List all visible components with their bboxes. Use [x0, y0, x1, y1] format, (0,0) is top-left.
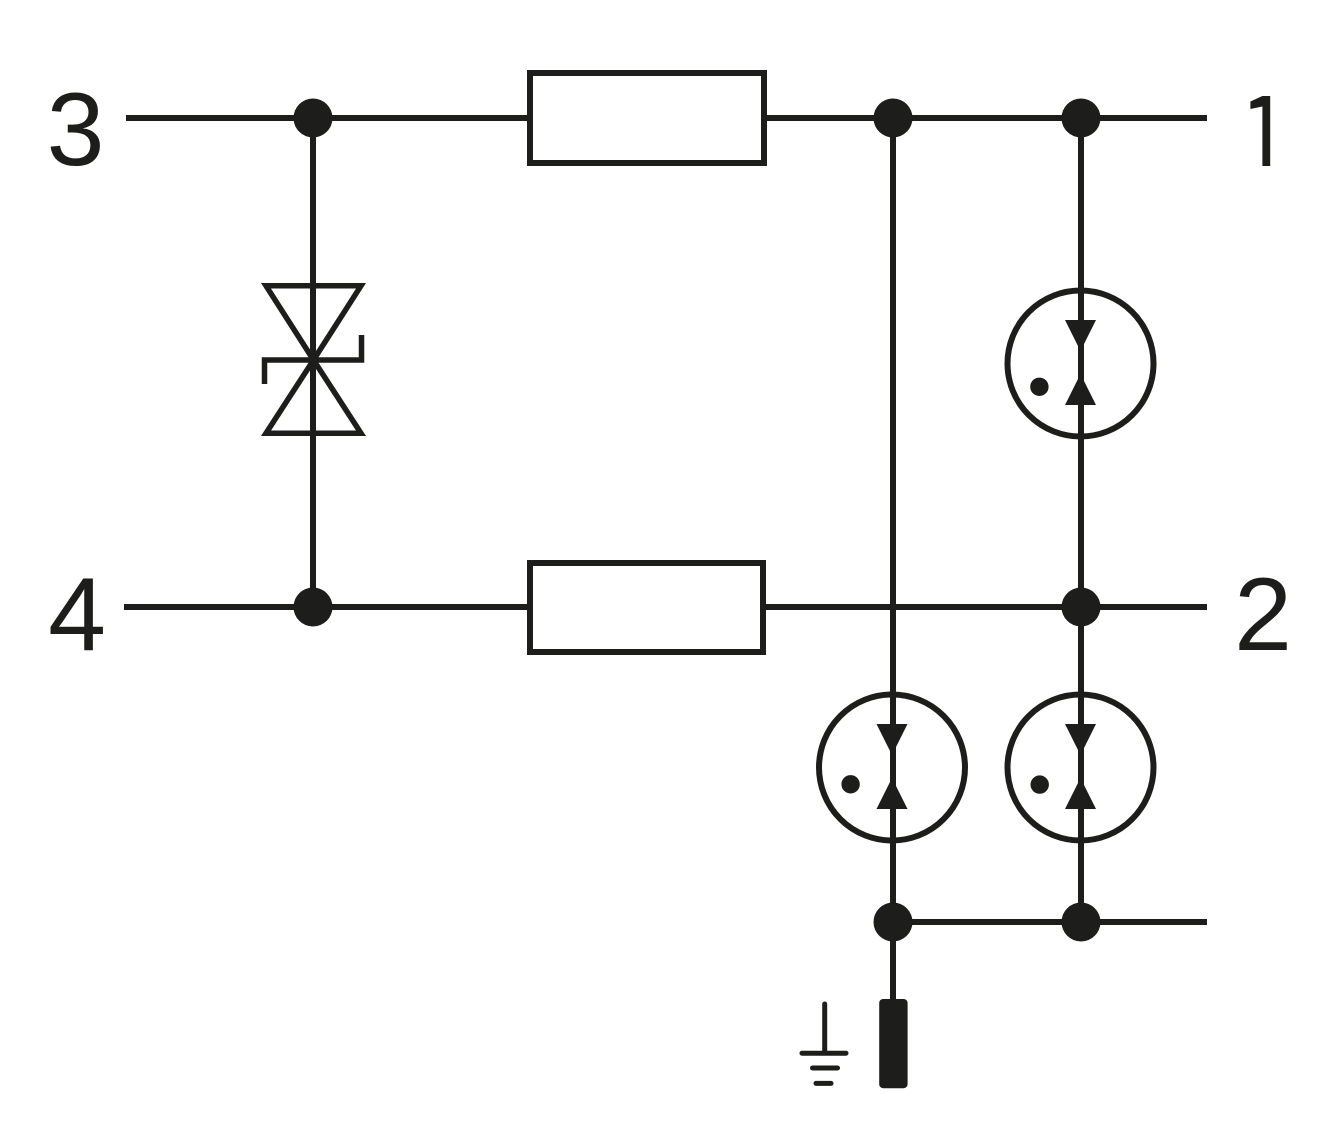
terminal label 1: [1250, 96, 1270, 166]
GDT F2 gas-filled indicator dot: [841, 775, 859, 793]
circle of GDT F1 (top right gas discharge tube): [1008, 291, 1154, 437]
wire: ground bus: [893, 919, 1207, 925]
wire: bottom line from terminal 4 to terminal 2: [124, 604, 1207, 610]
node: junction bottom wire / TVS branch: [294, 588, 333, 627]
wire: stem from ground bus to ground contact: [890, 922, 896, 1000]
resistor R2 (bottom decoupling impedance box): [530, 563, 763, 652]
wire: vertical branch x=1081 through GDT F1 and F3: [1078, 118, 1084, 922]
wire: top line from terminal 3 to terminal 1: [126, 115, 1207, 121]
circle of GDT F2 (bottom left gas discharge tube): [819, 695, 965, 841]
node: junction top wire / TVS branch: [294, 99, 333, 138]
TVS suppressor diode D1 (bidirectional, between lines 3 and 4): [265, 286, 362, 433]
wire: vertical branch x=893 through GDT F2 to ground bus: [890, 118, 896, 922]
resistor R1 (top decoupling impedance box): [530, 73, 764, 163]
wire: vertical branch through TVS diode at x=313: [310, 118, 316, 607]
node: junction top wire / branch x=1081: [1062, 99, 1101, 138]
svg-text:3: 3: [47, 72, 105, 188]
ground contact electrode (black bar): [879, 999, 907, 1088]
GDT F2 internal electrodes (filled triangles): [877, 724, 908, 809]
svg-text:2: 2: [1234, 557, 1292, 673]
svg-text:4: 4: [48, 557, 106, 673]
node: junction bottom wire / branch x=1081: [1062, 588, 1101, 627]
node: junction top wire / branch x=893: [874, 99, 913, 138]
node: junction ground bus / branch x=1081: [1062, 903, 1101, 942]
GDT F1 gas-filled indicator dot: [1030, 378, 1048, 396]
ground (earth symbol): [802, 1004, 846, 1083]
node: junction ground bus / branch x=893: [874, 903, 913, 942]
GDT F3 gas-filled indicator dot: [1031, 775, 1049, 793]
GDT F1 internal electrodes (filled triangles): [1065, 320, 1096, 405]
circle of GDT F3 (bottom right gas discharge tube): [1008, 695, 1154, 841]
GDT F3 internal electrodes (filled triangles): [1065, 724, 1096, 809]
